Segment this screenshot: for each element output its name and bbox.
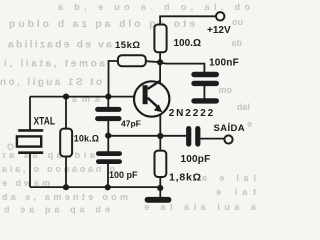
svg-text:15kΩ: 15kΩ [115, 40, 140, 51]
svg-text:SAÍDA: SAÍDA [214, 123, 246, 134]
svg-text:47pF: 47pF [121, 119, 141, 129]
svg-text:1,8kΩ: 1,8kΩ [169, 172, 202, 184]
svg-text:o naoanoo o ,aia: o naoanoo o ,aia [1, 164, 115, 174]
svg-text:ot S1 augil ,on: ot S1 augil ,on [0, 77, 102, 88]
svg-text:10k.Ω: 10k.Ω [74, 134, 99, 144]
svg-text:ob .la ,o b .a ou e ,d a: ob .la ,o b .a ou e ,d a [57, 2, 250, 12]
svg-text:lab: lab [236, 102, 250, 112]
svg-text:om: om [219, 85, 233, 95]
svg-text:ama: ama [71, 94, 100, 104]
svg-text:100pF: 100pF [181, 154, 211, 165]
svg-text:100.Ω: 100.Ω [174, 38, 201, 49]
svg-text:e: e [247, 119, 252, 129]
svg-text:100nF: 100nF [209, 58, 239, 69]
svg-text:+12V: +12V [207, 25, 231, 36]
svg-text:XTAL: XTAL [34, 115, 56, 127]
svg-text:uo: uo [232, 17, 243, 27]
svg-text:2N2222: 2N2222 [169, 108, 215, 119]
svg-text:da: da [231, 38, 242, 48]
svg-text:100 pF: 100 pF [109, 170, 138, 180]
